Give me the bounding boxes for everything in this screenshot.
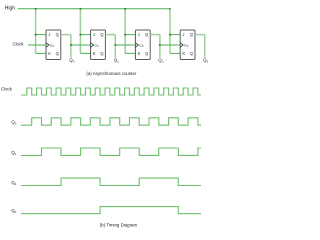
junction drop/J (79, 34, 81, 36)
svg-text:J: J (48, 32, 50, 37)
wire Q3 output from FF4 (195, 34, 205, 36)
flip-flop FF1 (46, 30, 61, 60)
junction on High rail (79, 8, 81, 10)
waveform Q2 (21, 178, 201, 185)
wire Q0 output from FF1 (61, 34, 71, 36)
wire Q2 output from FF3 (150, 34, 160, 36)
svg-text:K: K (182, 51, 185, 56)
svg-text:J: J (93, 32, 95, 37)
junction drop/J (35, 34, 37, 36)
junction drop/J (169, 34, 171, 36)
waveform Clock (21, 88, 201, 95)
junction on High rail (35, 8, 37, 10)
svg-text:K: K (138, 51, 141, 56)
wire Clock input (28, 44, 46, 46)
wire High drop to FF1 J/K (35, 9, 37, 54)
flip-flop FF3 (135, 30, 150, 60)
svg-text:K: K (48, 51, 51, 56)
wire High drop to FF3 J/K (124, 9, 126, 54)
junction on High rail (169, 8, 171, 10)
svg-text:J: J (182, 32, 184, 37)
wire Q1 output from FF2 (105, 34, 115, 36)
svg-text:(a) Asynchronous counter: (a) Asynchronous counter (86, 71, 137, 76)
waveform Q1 (21, 148, 201, 155)
junction on High rail (124, 8, 126, 10)
wire High drop to FF2 J/K (79, 9, 81, 54)
wire clock feed FF2 (71, 44, 91, 46)
junction Qvert/clock (114, 44, 116, 46)
svg-text:K: K (93, 51, 96, 56)
junction Qvert/clock (70, 44, 72, 46)
wire clock feed FF4 (160, 44, 180, 46)
flip-flop FF4 (180, 30, 195, 60)
wire High drop to FF4 J/K (169, 9, 171, 54)
svg-text:J: J (138, 32, 140, 37)
flip-flop FF2 (91, 30, 106, 60)
svg-text:High: High (5, 5, 16, 11)
waveform Q0 (21, 118, 201, 125)
waveform Q3 (21, 207, 201, 214)
wire High rail (18, 8, 170, 10)
junction Qvert/clock (159, 44, 161, 46)
junction drop/J (124, 34, 126, 36)
svg-text:Clock: Clock (1, 86, 13, 91)
svg-text:Clock: Clock (13, 42, 25, 47)
svg-text:(b) Timing Diagram: (b) Timing Diagram (100, 222, 138, 227)
wire clock feed FF3 (115, 44, 135, 46)
